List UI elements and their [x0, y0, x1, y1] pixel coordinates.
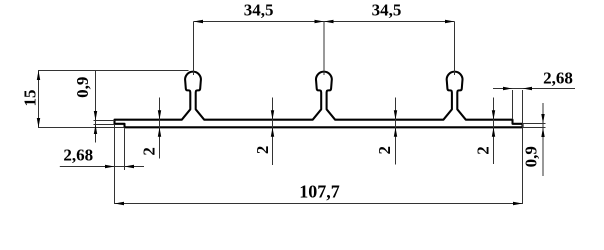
- dimension line 0,9 left: [95, 71, 97, 143]
- dimension line 2,68 top right: [493, 88, 575, 90]
- dimension line 2 (first): [159, 98, 161, 159]
- extension line left tail bottom: [94, 124, 115, 126]
- arrowhead 2,68 top right outer-left (points right): [503, 87, 513, 90]
- arrowhead 2 third bottom (points up): [394, 127, 397, 137]
- extension line bulb1 center: [193, 22, 195, 76]
- dimension line 2 (second): [272, 98, 274, 166]
- arrowhead 15 bottom (points down): [37, 118, 40, 128]
- extension line plate bottom level: [38, 127, 125, 129]
- svg-text:2: 2: [140, 147, 159, 156]
- dimension line 107,7 (bottom): [115, 203, 523, 205]
- profile outline (ceiling T-profile cross-section with 3 bulbs): [115, 72, 523, 128]
- svg-text:0,9: 0,9: [73, 77, 92, 98]
- dimension line 2 (third): [395, 98, 397, 165]
- svg-text:2: 2: [253, 146, 272, 155]
- arrowhead 2 first top (points down): [158, 110, 161, 120]
- arrowhead 34,5 left (points left): [194, 20, 204, 23]
- svg-text:107,7: 107,7: [299, 182, 340, 202]
- dimension line 34,5 (top, chained pair): [194, 21, 455, 23]
- arrowhead 2 fourth bottom (points up): [492, 127, 495, 137]
- arrowhead 0,9 right upper (points down): [541, 114, 544, 124]
- arrowhead 2 third top (points down): [394, 110, 397, 120]
- arrowhead 34,5 right (points right): [445, 20, 455, 23]
- svg-text:2,68: 2,68: [543, 68, 573, 87]
- extension line right step: [512, 90, 514, 119]
- svg-text:2: 2: [375, 146, 394, 155]
- extension line right tail bottom: [523, 127, 546, 129]
- dimension line 2,68 bottom left: [60, 166, 144, 168]
- arrowhead 0,9 left upper (points down): [94, 111, 97, 121]
- extension line left step: [124, 129, 126, 171]
- arrowhead 107,7 right (points right): [513, 202, 523, 205]
- arrowhead 2 first bottom (points up): [158, 127, 161, 137]
- arrowhead 0,9 right lower (points up): [541, 128, 544, 138]
- extension line bulb top level: [38, 70, 189, 72]
- arrowhead 2 second top (points down): [271, 110, 274, 120]
- dimension line 2 (fourth): [493, 98, 495, 165]
- svg-text:34,5: 34,5: [244, 1, 274, 20]
- arrowhead 15 top (points up): [37, 71, 40, 81]
- arrowhead 2 second bottom (points up): [271, 127, 274, 137]
- arrowhead 2,68 bottom left outer-right (points left): [125, 165, 135, 168]
- arrowhead 34,5 middle (points left): [324, 20, 334, 23]
- extension line bulb3 center: [454, 22, 456, 76]
- arrowhead 107,7 left (points left): [115, 202, 125, 205]
- extension line left tail top: [94, 120, 115, 122]
- arrowhead 0,9 left lower (points up): [94, 125, 97, 135]
- svg-text:2,68: 2,68: [63, 145, 93, 164]
- dimension line 15 (left): [38, 71, 40, 128]
- arrowhead 34,5 middle (points right): [315, 20, 325, 23]
- svg-text:15: 15: [21, 90, 40, 107]
- extension line right end (long, shared with 107,7): [522, 90, 524, 204]
- svg-text:0,9: 0,9: [522, 146, 541, 167]
- svg-text:2: 2: [473, 146, 492, 155]
- arrowhead 2 fourth top (points down): [492, 110, 495, 120]
- extension line bulb2 center: [323, 22, 325, 76]
- arrowhead 2,68 top right outer-right (points left): [523, 87, 533, 90]
- arrowhead 2,68 bottom left outer-left (points right): [105, 165, 115, 168]
- svg-text:34,5: 34,5: [372, 1, 402, 20]
- extension line right tail top: [523, 123, 546, 125]
- extension line left end (long, shared with 107,7): [114, 125, 116, 204]
- dimension line 0,9 right: [542, 103, 544, 176]
